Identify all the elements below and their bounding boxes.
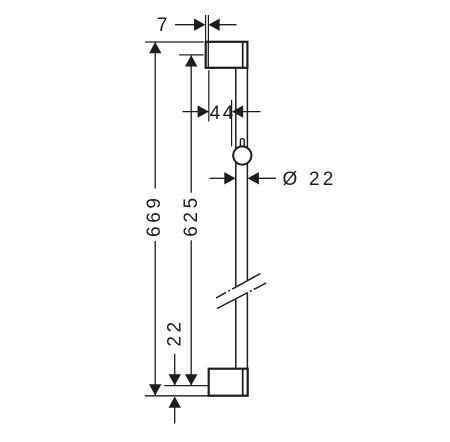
bottom up arrow tail <box>174 406 176 424</box>
dim 7 extension line A <box>205 15 207 42</box>
bottom extension line (bracket bottom) <box>145 395 209 397</box>
svg-text:22: 22 <box>165 318 186 346</box>
dim 44 arrowhead right (points left) <box>232 105 243 117</box>
svg-text:44: 44 <box>210 103 236 124</box>
svg-text:669: 669 <box>144 194 165 237</box>
rail lower section left edge <box>235 299 237 369</box>
bottom up arrowhead (points up) <box>169 396 181 407</box>
dim 44 arrowhead left (points right) <box>198 105 209 117</box>
dim diameter 22 leader line left <box>210 177 226 179</box>
dim 669 line upper segment <box>154 43 156 189</box>
dim 44 leader line right <box>243 111 261 113</box>
dim 22 line segment <box>174 354 176 385</box>
dim 625 top extension line <box>179 54 203 56</box>
dim 7 arrowhead right (points left) <box>208 19 219 31</box>
dim 669 line lower segment <box>154 241 156 395</box>
dim 7 leader line right <box>219 24 236 26</box>
rail upper section left edge <box>235 68 237 287</box>
dim 625 arrowhead top (points up) <box>185 55 197 66</box>
dim diameter 22 leader line right <box>259 177 276 179</box>
dim 44 extension line left <box>208 70 210 121</box>
slider pin <box>240 139 244 150</box>
rail break lower diagonal <box>217 283 266 309</box>
top wall bracket <box>206 42 248 68</box>
dim 625 arrowhead bottom (points down) <box>185 374 197 385</box>
bottom bracket inner right line <box>242 369 244 396</box>
dim 44 extension line right <box>231 100 233 147</box>
svg-text:625: 625 <box>181 194 202 237</box>
rail upper section right edge <box>246 68 248 281</box>
top bracket inner wall-plate line <box>207 42 209 68</box>
dim 669 top extension line <box>145 41 204 43</box>
slider circle <box>233 146 251 164</box>
rail break upper diagonal <box>216 274 261 299</box>
dim diameter 22 arrowhead left (points right) <box>224 172 235 184</box>
dim 625 line upper segment <box>190 56 192 193</box>
dim 669 arrowhead bottom (points down) <box>149 384 161 395</box>
dim 7 arrowhead left (points right) <box>194 19 205 31</box>
dim 44 leader line left <box>183 111 199 113</box>
dim 625 line lower segment <box>190 240 192 385</box>
dim diameter 22 arrowhead right (points left) <box>248 172 259 184</box>
svg-text:Ø 22: Ø 22 <box>283 169 337 190</box>
dim 7 extension line B <box>207 15 209 42</box>
top bracket inner right line <box>242 42 244 68</box>
dim 22 arrowhead bottom (points down) <box>169 374 181 385</box>
dim 669 arrowhead top (points up) <box>149 42 161 53</box>
rail lower section right edge <box>246 293 248 369</box>
dim 7 leader line left <box>175 24 195 26</box>
bottom wall bracket <box>209 369 248 396</box>
svg-text:7: 7 <box>157 15 168 36</box>
bottom extension line (hole centre) <box>164 385 208 387</box>
